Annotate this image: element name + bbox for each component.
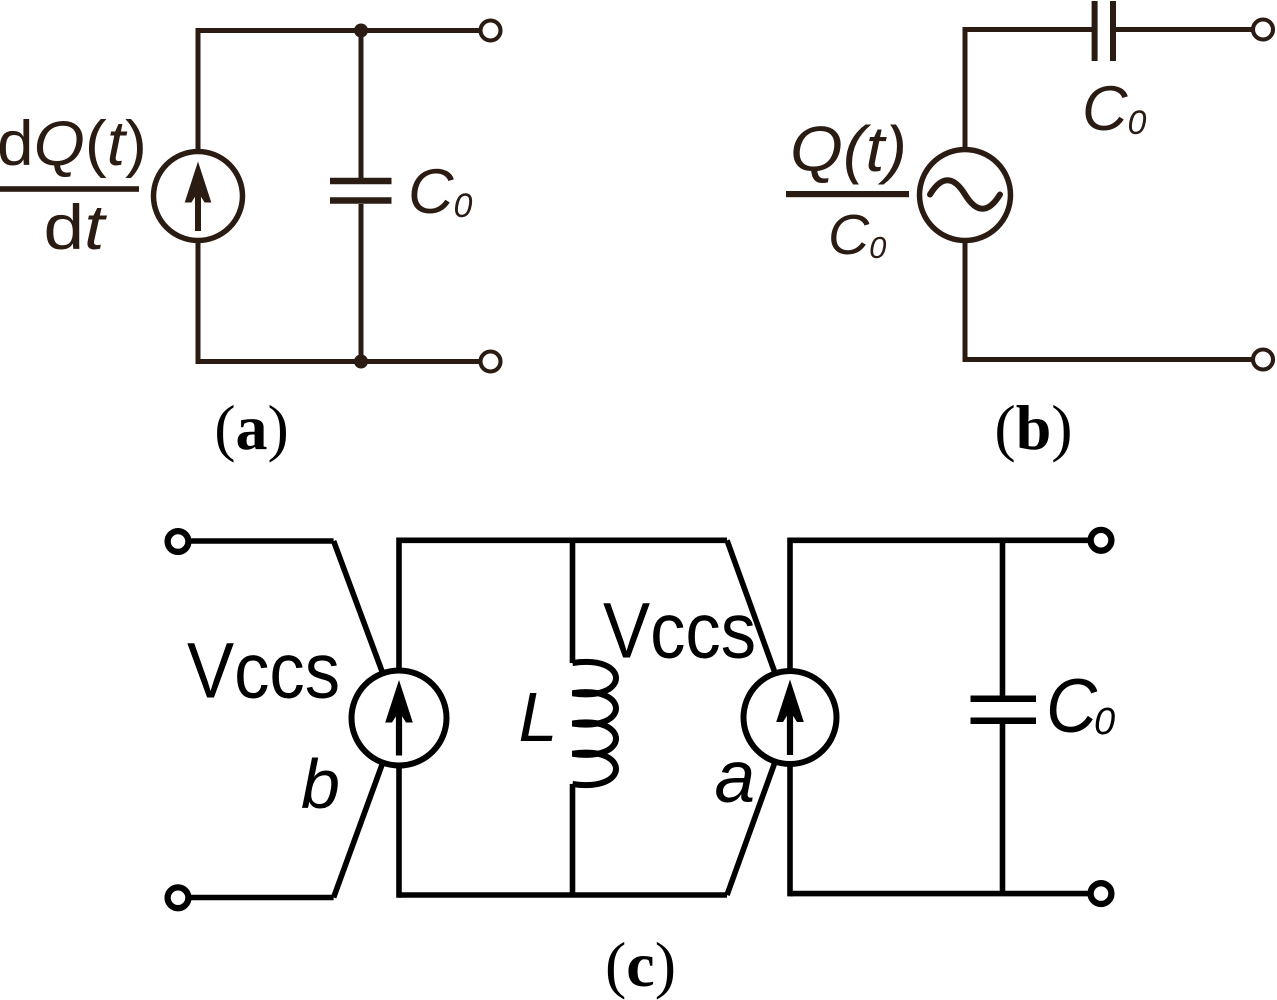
current source dQ(t)/dt bbox=[154, 152, 243, 241]
VCCS b circle bbox=[352, 671, 447, 766]
svg-text:Vccs: Vccs bbox=[187, 627, 340, 715]
sine wave inside source bbox=[930, 180, 1000, 209]
capacitor C0 (c) plates bbox=[971, 699, 1037, 721]
wire: (a) bottom rail bbox=[196, 359, 480, 364]
fraction bar Q(t)/C0 bbox=[786, 191, 909, 197]
svg-text:a: a bbox=[715, 737, 756, 818]
wire: inductor branch top lead bbox=[570, 540, 576, 663]
svg-text:dQ(t): dQ(t) bbox=[0, 109, 147, 179]
svg-text:C0: C0 bbox=[1082, 74, 1147, 144]
wire: right box bottom rail bbox=[790, 891, 1090, 897]
terminal (c) bottom left bbox=[168, 887, 189, 908]
wire: (c) bottom left terminal lead bbox=[190, 895, 334, 901]
capacitor C0 (a) bottom lead bbox=[359, 204, 364, 362]
wire: (b) top rail left segment bbox=[963, 27, 1093, 32]
inductor L coil bbox=[573, 662, 617, 785]
capacitor C0 (c) bottom lead bbox=[1000, 724, 1006, 894]
wire: (b) top rail right segment bbox=[1116, 27, 1252, 32]
svg-text:Q(t): Q(t) bbox=[790, 113, 907, 185]
VCCS a arrow bbox=[776, 680, 804, 756]
svg-text:C: C bbox=[1046, 664, 1098, 749]
wire: diagonal bottom into Vccs b bbox=[334, 763, 383, 898]
wire: (b) left branch bottom bbox=[963, 241, 968, 360]
wire: (b) bottom rail bbox=[963, 357, 1253, 362]
svg-text:b: b bbox=[301, 745, 340, 823]
wire: (a) top rail bbox=[196, 28, 480, 33]
terminal (c) bottom right bbox=[1091, 883, 1112, 904]
capacitor C0 (c) top lead bbox=[1000, 540, 1006, 695]
capacitor C0 (a) top lead bbox=[359, 31, 364, 179]
wire: (a) left branch bottom bbox=[196, 240, 201, 362]
wire: inductor branch bottom lead bbox=[570, 784, 576, 895]
svg-text:C0: C0 bbox=[408, 157, 473, 227]
wire: vertical above Vccs b bbox=[396, 538, 402, 672]
fraction bar dQ(t)/dt bbox=[0, 186, 139, 192]
svg-text:dt: dt bbox=[44, 193, 108, 263]
junction dot bottom (a) bbox=[354, 355, 368, 369]
wire: right box top rail bbox=[790, 537, 1090, 543]
svg-text:Vccs: Vccs bbox=[603, 587, 756, 675]
wire: diagonal bottom into Vccs a bbox=[727, 764, 774, 895]
wire: diagonal top into Vccs a bbox=[727, 540, 774, 671]
wire: diagonal top into Vccs b bbox=[334, 541, 383, 673]
svg-text:L: L bbox=[519, 678, 558, 756]
wire: vertical below Vccs a bbox=[787, 764, 793, 896]
wire: middle box bottom rail bbox=[399, 892, 727, 898]
wire: vertical above Vccs a bbox=[787, 538, 793, 672]
terminal (c) top left bbox=[168, 531, 189, 552]
junction dot top (a) bbox=[354, 24, 368, 38]
terminal (b) bottom right bbox=[1253, 350, 1273, 370]
svg-text:(c): (c) bbox=[605, 929, 676, 1000]
svg-text:C0: C0 bbox=[828, 203, 886, 267]
svg-text:(b): (b) bbox=[994, 392, 1072, 463]
VCCS a circle bbox=[744, 671, 837, 764]
svg-text:(a): (a) bbox=[214, 392, 289, 463]
VCCS b arrow bbox=[385, 680, 413, 756]
wire: (b) left branch top bbox=[963, 28, 968, 150]
wire: middle box top rail bbox=[399, 537, 727, 543]
terminal (a) top right bbox=[481, 21, 501, 41]
capacitor C0 (b) plates bbox=[1095, 1, 1113, 61]
terminal (a) bottom right bbox=[481, 352, 501, 372]
current source arrow (a) bbox=[185, 162, 212, 232]
svg-text:0: 0 bbox=[1094, 701, 1115, 743]
wire: (a) left branch top bbox=[196, 31, 201, 153]
capacitor C0 (a) plates bbox=[330, 181, 392, 201]
wire: vertical below Vccs b bbox=[396, 765, 402, 898]
terminal (c) top right bbox=[1091, 530, 1112, 551]
voltage source Q(t)/C0 circle bbox=[920, 150, 1011, 241]
wire: (c) top left terminal lead bbox=[190, 538, 334, 544]
terminal (b) top right bbox=[1253, 20, 1273, 40]
